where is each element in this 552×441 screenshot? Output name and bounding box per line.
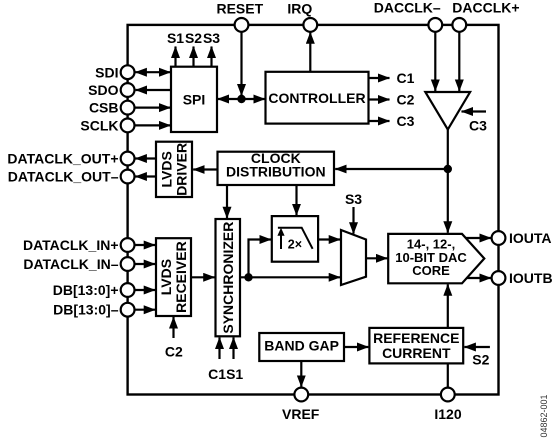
svg-text:RESET: RESET: [216, 1, 263, 17]
wire IRQ from CONTROLLER: [309, 32, 311, 72]
svg-text:S3: S3: [345, 191, 362, 207]
svg-text:IRQ: IRQ: [287, 1, 312, 17]
chip boundary: [128, 25, 499, 395]
terminal DB-: [121, 303, 135, 317]
terminal DACCLK-: [428, 18, 442, 32]
mux trapezoid: [341, 230, 366, 285]
label IOUTA: [509, 230, 552, 246]
terminal IOUTA: [492, 231, 506, 245]
label DATACLK_IN+: [23, 237, 119, 253]
block REFERENCE CURRENT: [369, 328, 463, 364]
wire DACCLK+ stem: [458, 32, 460, 91]
label VREF: [282, 406, 320, 422]
terminal IRQ: [303, 18, 317, 32]
wire clock buffer to DAC core: [447, 130, 449, 233]
terminal SDI: [121, 65, 135, 79]
svg-text:IOUTA: IOUTA: [509, 230, 552, 246]
svg-text:S3: S3: [203, 30, 220, 46]
svg-text:CURRENT: CURRENT: [382, 345, 451, 361]
label IRQ: [287, 1, 312, 17]
block SYNCHRONIZER: [216, 219, 241, 336]
text SYNCHRONIZER: [220, 222, 236, 334]
wire SCLK in: [135, 124, 171, 126]
svg-text:S2: S2: [472, 352, 489, 368]
wire DATACLK_IN- in: [135, 263, 156, 265]
wire SPI-CONTROLLER bidirectional: [218, 98, 266, 100]
wire CLOCK DISTRIBUTION to SYNCHRONIZER: [226, 185, 228, 218]
wire S1 into SYNCHRONIZER: [232, 338, 234, 360]
svg-text:SCLK: SCLK: [80, 117, 118, 133]
wire LVDS DRIVER to DATACLK_OUT+: [135, 157, 156, 159]
label C3 clock buffer: [469, 118, 487, 134]
text SPI: [183, 91, 206, 107]
svg-text:DATACLK_IN–: DATACLK_IN–: [23, 256, 118, 272]
wire mux to DAC core: [366, 257, 387, 259]
svg-text:2×: 2×: [288, 237, 302, 251]
svg-text:DB[13:0]–: DB[13:0]–: [53, 302, 119, 318]
svg-text:CSB: CSB: [89, 100, 119, 116]
wire SDO out: [136, 89, 171, 91]
wire BAND GAP to REFERENCE CURRENT: [344, 346, 368, 348]
label S3 mux: [345, 191, 362, 207]
label S2 above SPI: [185, 30, 202, 46]
terminal DATACLK_IN-: [121, 257, 135, 271]
wire DATACLK_IN+ in: [135, 244, 156, 246]
wire RESET stem to junction: [240, 32, 242, 96]
svg-text:DACCLK+: DACCLK+: [452, 0, 519, 15]
terminal DB+: [121, 283, 135, 297]
wire DB+ in: [135, 289, 156, 291]
wire C2 controller output: [369, 98, 390, 100]
svg-text:I120: I120: [434, 406, 461, 422]
svg-text:SYNCHRONIZER: SYNCHRONIZER: [220, 222, 236, 334]
wire DB- in: [135, 309, 156, 311]
text REFERENCE CURRENT: [373, 330, 459, 361]
terminal I120: [441, 388, 455, 402]
svg-text:BAND GAP: BAND GAP: [264, 338, 339, 354]
label SCLK: [80, 117, 118, 133]
wire LVDS RECEIVER to SYNCHRONIZER: [191, 276, 215, 278]
svg-text:SDO: SDO: [88, 82, 118, 98]
block CLOCK DISTRIBUTION: [218, 152, 335, 185]
label C1S1 synchronizer: [208, 366, 243, 382]
svg-text:CONTROLLER: CONTROLLER: [268, 90, 365, 106]
text CLOCK DISTRIBUTION: [226, 150, 326, 180]
wire DAC core to IOUTA: [464, 237, 491, 239]
wire C1 controller output: [369, 77, 390, 79]
terminal DACCLK+: [452, 18, 466, 32]
label C1 controller output: [397, 70, 415, 86]
terminal DATACLK_OUT-: [121, 170, 135, 184]
svg-text:SDI: SDI: [95, 64, 118, 80]
text CONTROLLER: [268, 90, 365, 106]
label IOUTB: [509, 270, 552, 286]
label SDO: [88, 82, 118, 98]
label CSB: [89, 100, 119, 116]
svg-text:DATACLK_OUT–: DATACLK_OUT–: [8, 169, 119, 185]
wire BAND GAP to VREF: [300, 361, 302, 387]
terminal RESET: [235, 18, 249, 32]
DAC core pentagon: [388, 234, 484, 283]
text BAND GAP: [264, 338, 339, 354]
text 2x: [288, 237, 302, 251]
svg-text:C1: C1: [397, 70, 415, 86]
label RESET: [216, 1, 263, 17]
label S2 reference current: [472, 352, 489, 368]
wire interpolation filter to mux: [318, 238, 340, 240]
wire CLOCK DISTRIBUTION to LVDS DRIVER: [193, 168, 217, 170]
watermark 04862-001: [539, 394, 549, 437]
wire SDI bidirectional: [135, 71, 170, 73]
terminal VREF: [294, 388, 308, 402]
block LVDS RECEIVER: [156, 238, 191, 316]
terminal CSB: [121, 101, 135, 115]
wire LVDS DRIVER to DATACLK_OUT-: [135, 175, 156, 177]
wire S1 from SPI: [174, 47, 176, 67]
wire REFERENCE CURRENT to I120: [447, 363, 449, 388]
svg-text:SPI: SPI: [183, 91, 206, 107]
svg-text:C2: C2: [397, 92, 415, 108]
svg-text:CORE: CORE: [412, 263, 450, 278]
junction dot synchronizer output: [244, 273, 252, 281]
label DATACLK_OUT+: [7, 151, 118, 167]
svg-text:C2: C2: [165, 343, 183, 359]
interpolation filter symbol: [277, 228, 312, 249]
svg-text:DACCLK–: DACCLK–: [374, 0, 441, 15]
wire CSB in: [135, 106, 171, 108]
label C2 receiver: [165, 343, 183, 359]
wire REFERENCE CURRENT to DAC core: [447, 284, 449, 328]
svg-text:REFERENCE: REFERENCE: [373, 330, 459, 346]
block LVDS DRIVER: [156, 142, 192, 197]
wire S3 into mux: [352, 207, 354, 234]
junction dot RESET/SPI/CONTROLLER: [237, 95, 245, 103]
wire clock branch to CLOCK DISTRIBUTION: [335, 168, 448, 170]
svg-text:S1: S1: [167, 30, 184, 46]
svg-text:S2: S2: [185, 30, 202, 46]
svg-text:DATACLK_IN+: DATACLK_IN+: [23, 237, 119, 253]
wire SYNCHRONIZER to mux: [240, 276, 340, 278]
svg-text:C1S1: C1S1: [208, 366, 243, 382]
svg-text:DISTRIBUTION: DISTRIBUTION: [226, 164, 326, 180]
svg-text:04862-001: 04862-001: [539, 394, 549, 437]
wire C3 control into clock buffer: [462, 110, 487, 112]
svg-text:DB[13:0]+: DB[13:0]+: [53, 282, 119, 298]
wire C2 into LVDS RECEIVER: [172, 317, 174, 338]
svg-text:IOUTB: IOUTB: [509, 270, 552, 286]
wire CLOCK DISTRIBUTION to interpolation filter: [295, 185, 297, 215]
label SDI: [95, 64, 118, 80]
text LVDS RECEIVER: [158, 241, 189, 313]
wire S2 from SPI: [192, 47, 194, 67]
wire C1 into SYNCHRONIZER: [218, 338, 220, 360]
svg-text:C3: C3: [397, 113, 415, 129]
label S3 above SPI: [203, 30, 220, 46]
terminal SDO: [121, 83, 135, 97]
terminal DATACLK_OUT+: [121, 152, 135, 166]
label DACCLK+: [452, 0, 519, 15]
block 2x interpolation filter: [272, 216, 318, 262]
block BAND GAP: [259, 333, 344, 361]
label DB-: [53, 302, 119, 318]
wire DAC core to IOUTB: [464, 277, 491, 279]
text LVDS DRIVER: [159, 143, 190, 196]
label DATACLK_OUT-: [8, 169, 119, 185]
wire DACCLK- stem: [434, 32, 436, 91]
wire branch to interpolation filter: [249, 240, 272, 278]
wire S3 from SPI: [210, 47, 212, 67]
label DB+: [53, 282, 119, 298]
label C3 controller output: [397, 113, 415, 129]
label DATACLK_IN-: [23, 256, 118, 272]
terminal DATACLK_IN+: [121, 238, 135, 252]
block CONTROLLER: [266, 72, 369, 124]
label DACCLK-: [374, 0, 441, 15]
junction dot clock to DAC: [444, 165, 452, 173]
label I120: [434, 406, 461, 422]
text DAC core: [395, 237, 467, 279]
svg-text:DATACLK_OUT+: DATACLK_OUT+: [7, 151, 118, 167]
terminal SCLK: [121, 119, 135, 133]
label C2 controller output: [397, 92, 415, 108]
clock buffer triangle: [425, 92, 470, 130]
block SPI: [171, 67, 217, 132]
wire C3 controller output: [369, 120, 390, 122]
terminal IOUTB: [492, 271, 506, 285]
svg-text:C3: C3: [469, 118, 487, 134]
svg-text:VREF: VREF: [282, 406, 320, 422]
wire S2 into REFERENCE CURRENT: [464, 346, 490, 348]
label S1 above SPI: [167, 30, 184, 46]
